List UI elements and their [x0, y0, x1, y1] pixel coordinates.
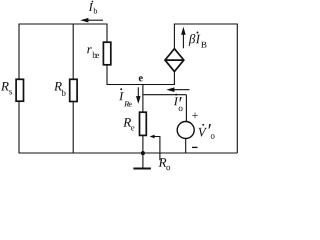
voltage source V-prime-o	[177, 122, 194, 139]
label I_Re	[119, 92, 131, 106]
wire Rs branch lower	[18, 101, 20, 153]
dependent current source diamond	[165, 49, 184, 72]
wire Vo branch upper	[185, 95, 187, 122]
resistor Re	[140, 112, 147, 135]
resistor Rs	[16, 79, 23, 101]
label Rb	[54, 82, 66, 96]
Ro pointer arrow	[153, 137, 160, 161]
junction dot	[141, 151, 145, 155]
wire dependent-source branch upper	[173, 24, 175, 50]
node e	[139, 76, 143, 81]
wire e-node horizontal	[107, 84, 175, 86]
resistor Rb	[70, 79, 77, 101]
wire Rs branch upper	[18, 24, 20, 80]
label rbe	[87, 47, 99, 58]
ground	[142, 153, 144, 168]
label Ro	[159, 158, 171, 170]
wire Vo branch lower	[185, 139, 187, 154]
current arrow IRe	[137, 87, 139, 98]
wire Rb branch upper	[72, 24, 74, 80]
wire rbe branch upper	[106, 24, 108, 43]
wire right edge	[236, 24, 238, 154]
wire rbe branch lower	[106, 65, 108, 85]
wire Re branch upper	[142, 85, 144, 113]
label beta-I_B	[189, 34, 207, 48]
wire Rb branch lower	[72, 102, 74, 154]
label Re	[123, 118, 134, 130]
wire top-right rail	[174, 23, 237, 25]
resistor rbe	[103, 42, 110, 65]
wire top-left rail	[19, 23, 108, 25]
label Rs	[1, 82, 12, 94]
current arrow beta-IB	[182, 34, 184, 49]
wire test-source horizontal	[143, 94, 187, 96]
current arrow I-prime-o	[173, 89, 189, 91]
wire Re branch lower	[142, 135, 144, 153]
wire bottom rail	[19, 152, 238, 154]
current arrow Ib	[88, 19, 104, 21]
plus sign	[192, 113, 198, 119]
label I_b	[89, 3, 97, 14]
label V-prime-o	[199, 124, 215, 139]
label I-prime-o	[174, 97, 183, 111]
wire dependent-source branch lower	[173, 72, 175, 86]
minus sign	[192, 147, 198, 148]
